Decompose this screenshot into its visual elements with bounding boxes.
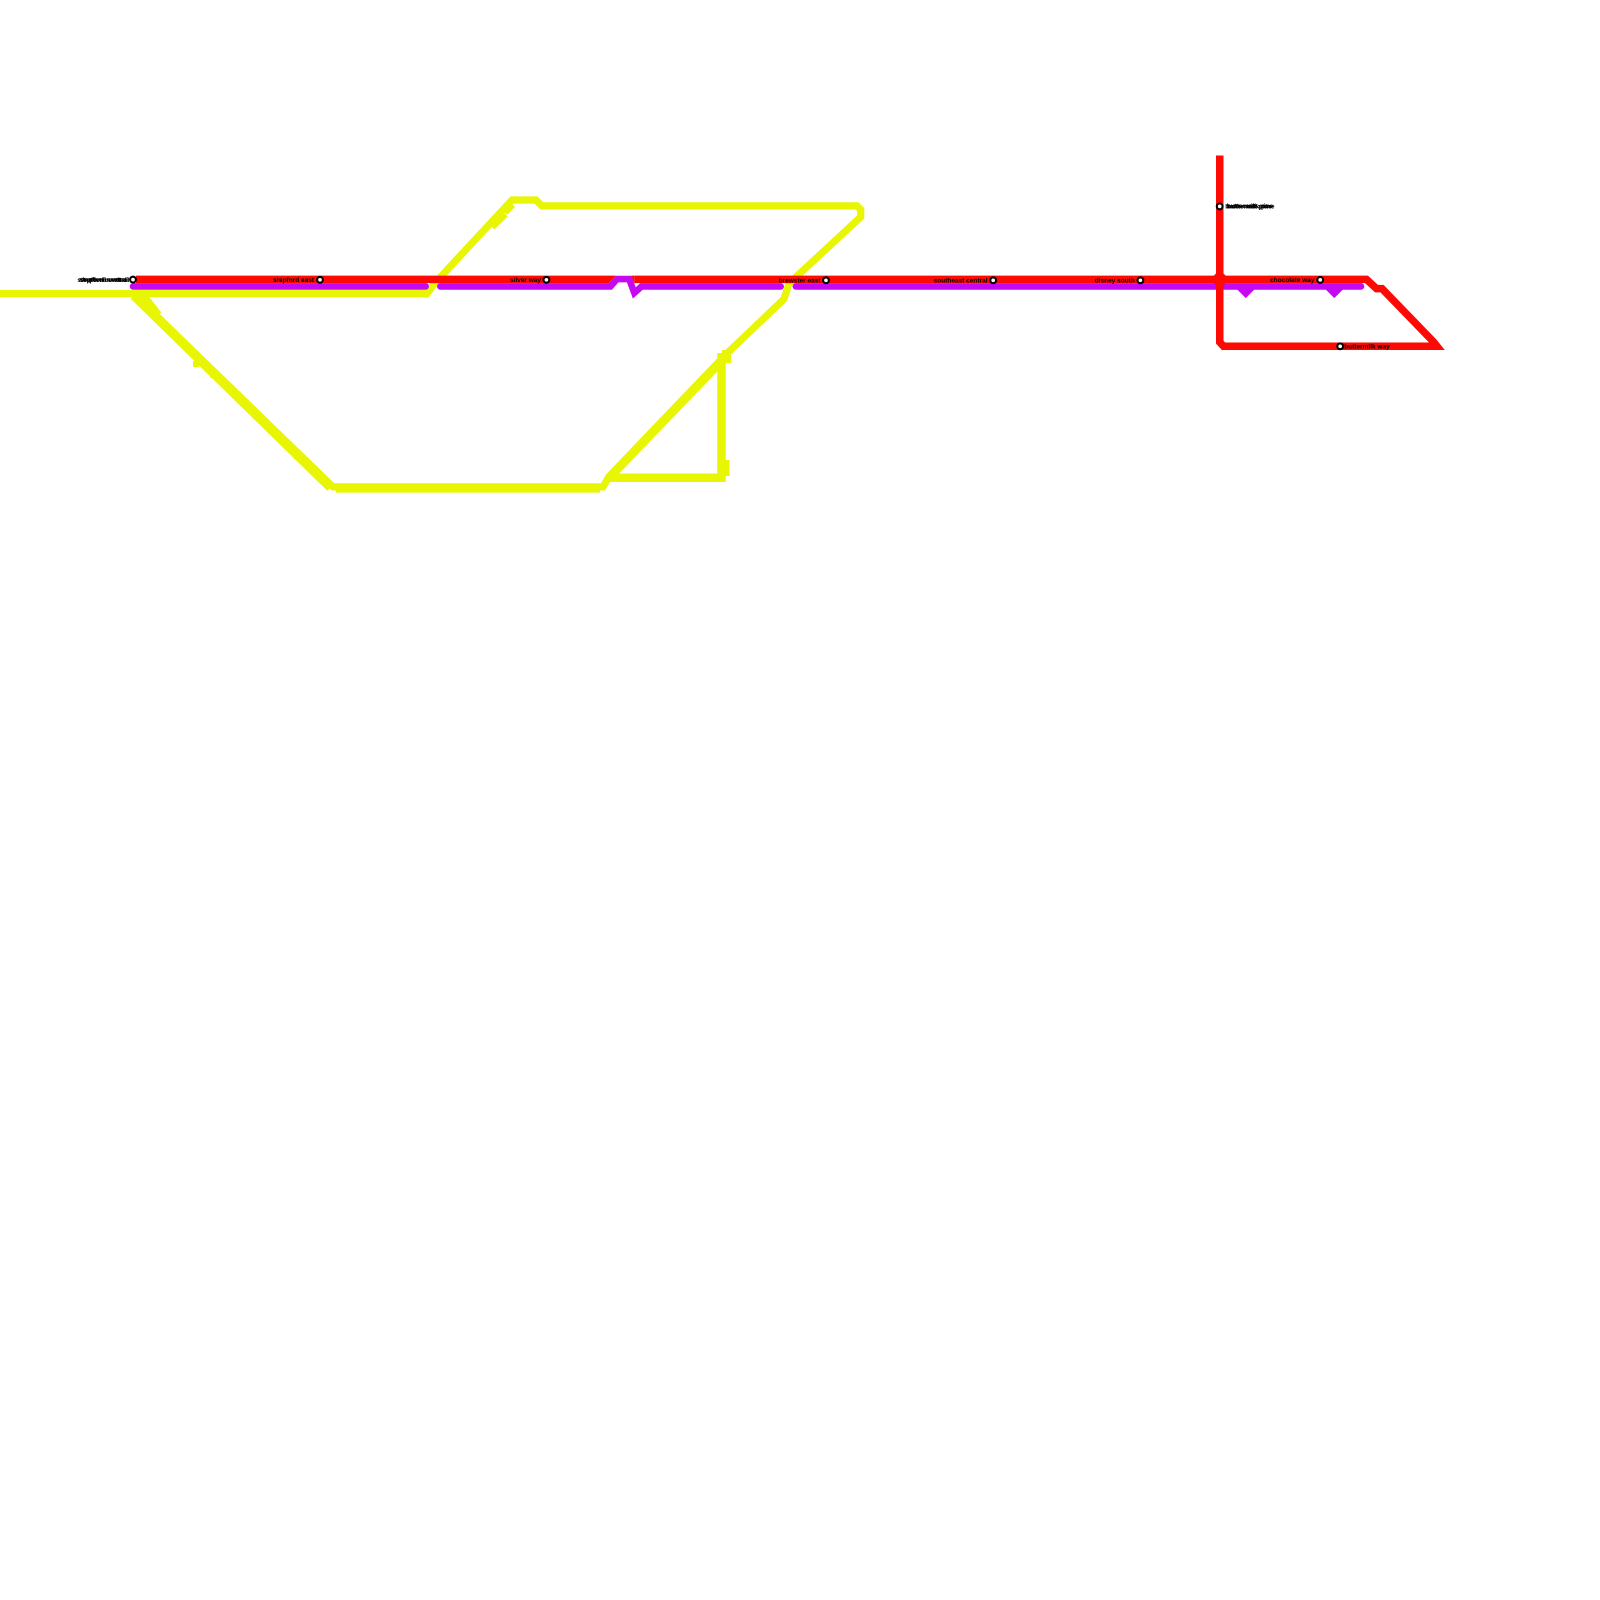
svg-text:buttermilk pine: buttermilk pine [1228,204,1275,211]
svg-text:buttermilk way: buttermilk way [1344,344,1390,351]
svg-text:stepford central: stepford central [80,277,129,284]
svg-text:disney south: disney south [1095,278,1135,285]
svg-text:silver way: silver way [510,277,541,284]
svg-text:southeast central: southeast central [934,278,988,285]
svg-text:brewster east: brewster east [779,278,822,285]
svg-text:chocolate way: chocolate way [1270,277,1315,284]
svg-text:stepford east: stepford east [273,277,315,284]
